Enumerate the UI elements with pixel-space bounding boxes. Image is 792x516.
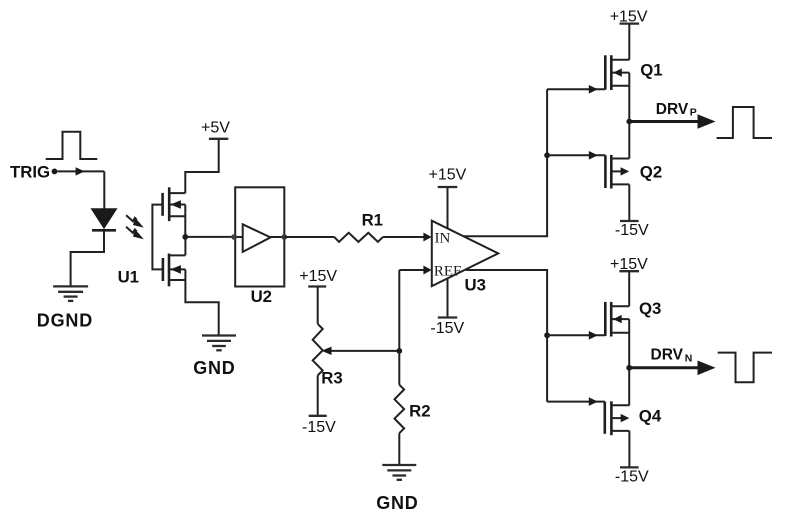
svg-text:GND: GND: [376, 493, 418, 513]
wire R3 wiper with arrow: [322, 347, 400, 355]
svg-text:Q2: Q2: [640, 163, 662, 182]
wire Q3 source to DRVN node: [628, 319, 630, 368]
svg-text:IN: IN: [435, 230, 451, 246]
LED D1 (optocoupler emitter): [91, 208, 118, 230]
svg-text:-15V: -15V: [302, 419, 336, 436]
resistor R2: [395, 385, 405, 434]
node U2 input dot: [231, 234, 237, 240]
svg-text:N: N: [685, 353, 693, 365]
wire Q4 source to -15V: [628, 431, 630, 468]
buffer U2 box: [234, 187, 284, 286]
node TRIG terminal dot: [52, 169, 58, 175]
svg-text:+15V: +15V: [610, 256, 648, 273]
ground GND (U1): [202, 336, 236, 351]
svg-text:GND: GND: [193, 358, 235, 378]
transistor U1 bottom photo-MOSFET: [163, 254, 186, 287]
wire DRVP output arrow: [629, 114, 715, 129]
power +5V: [201, 119, 230, 139]
wire U1 bottom drain up to node: [184, 237, 186, 256]
transistor Q3: [605, 302, 629, 337]
node Q3 gate branch junction: [544, 332, 550, 338]
svg-text:-15V: -15V: [430, 320, 464, 337]
wire DRVN node to Q4 drain: [628, 368, 630, 406]
power -15V (U3): [430, 279, 464, 338]
wire DRVP node to Q2 drain: [628, 122, 630, 159]
wire R1 to U3 IN with arrow: [383, 233, 432, 242]
power -15V (Q4): [615, 467, 649, 485]
svg-text:P: P: [690, 107, 697, 119]
resistor R3 potentiometer: [313, 324, 323, 376]
power +15V (R3): [299, 268, 337, 287]
ground GND (R2): [382, 465, 416, 480]
svg-text:+15V: +15V: [428, 167, 466, 184]
svg-text:R1: R1: [362, 211, 383, 230]
DRVN pulse waveform: [718, 353, 772, 383]
wire LED cathode to DGND: [71, 232, 104, 287]
svg-text:R3: R3: [321, 369, 342, 388]
transistor Q4: [605, 401, 630, 435]
wire TRIG with arrow: [57, 167, 104, 209]
wire U1 top source down to node: [184, 205, 186, 237]
wire Q1 gate with arrow: [547, 85, 605, 94]
wire R3 to -15V: [317, 375, 319, 415]
node U2 output dot: [281, 234, 287, 240]
power +15V (Q1): [610, 9, 648, 26]
node Q2 gate branch junction: [544, 152, 550, 158]
wire Q4 gate with arrow: [547, 397, 605, 406]
power -15V (R3): [302, 416, 336, 436]
svg-text:U1: U1: [118, 268, 139, 287]
resistor R1: [334, 233, 383, 242]
svg-text:+5V: +5V: [201, 119, 230, 136]
wire U3 lower output to Q3/Q4 gate rail: [466, 270, 547, 402]
op-amp U3 comparator: [432, 221, 498, 287]
wire +15V to Q3 drain: [628, 271, 630, 306]
svg-text:DGND: DGND: [37, 311, 93, 331]
wire U1 bottom source to GND: [185, 269, 218, 335]
light arrow 1 (opto): [126, 215, 144, 227]
node R2/R3 junction: [396, 348, 402, 354]
wire U1 gate rail: [152, 205, 163, 270]
svg-text:Q3: Q3: [639, 299, 661, 318]
transistor Q1: [605, 55, 629, 90]
wire +15V to Q1 drain: [628, 24, 630, 60]
DRVP pulse waveform: [717, 107, 772, 138]
svg-text:DRV: DRV: [651, 347, 684, 364]
wire R2 to GND: [398, 433, 400, 465]
svg-text:Q1: Q1: [640, 60, 662, 79]
svg-text:-15V: -15V: [615, 468, 649, 485]
wire U3 upper output to Q1/Q2 gate rail: [464, 89, 548, 236]
node DRVN label: [651, 347, 693, 365]
wire U1 top drain to +5V: [185, 139, 218, 193]
svg-text:U2: U2: [251, 287, 272, 306]
node U1 output junction: [182, 234, 188, 240]
power +15V (Q3): [610, 256, 648, 273]
transistor U1 top photo-MOSFET: [163, 187, 186, 221]
light arrow 2 (opto): [126, 227, 144, 239]
wire Q1 source to DRVP node: [628, 73, 630, 122]
transistor Q2: [605, 155, 629, 189]
ground DGND symbol: [53, 286, 88, 301]
wire Q2 gate with arrow: [547, 151, 605, 160]
node DRVP junction: [626, 119, 632, 125]
svg-text:R2: R2: [409, 402, 430, 421]
node DRVP label: [656, 101, 697, 118]
wire junction down to R2: [398, 351, 400, 385]
power +15V (U3): [428, 167, 466, 229]
wire Q2 source to -15V: [628, 184, 630, 221]
power -15V (Q2): [615, 221, 649, 239]
wire U1 to U2: [185, 236, 234, 238]
wire REF input with arrow: [399, 266, 431, 275]
TRIG input pulse waveform: [46, 132, 98, 159]
wire +15V to R3: [317, 287, 319, 324]
wire U2 to R1: [284, 236, 334, 238]
node DRVN junction: [626, 365, 632, 371]
svg-text:REF: REF: [434, 264, 462, 280]
svg-text:DRV: DRV: [656, 101, 689, 118]
svg-text:Q4: Q4: [639, 406, 662, 425]
wire junction up to REF: [398, 270, 400, 351]
wire Q3 gate with arrow: [547, 331, 605, 340]
svg-text:-15V: -15V: [615, 222, 649, 239]
svg-text:U3: U3: [464, 276, 485, 295]
svg-text:TRIG: TRIG: [10, 163, 50, 182]
svg-text:+15V: +15V: [299, 268, 337, 285]
svg-text:+15V: +15V: [610, 9, 648, 26]
wire DRVN output arrow: [629, 361, 715, 376]
